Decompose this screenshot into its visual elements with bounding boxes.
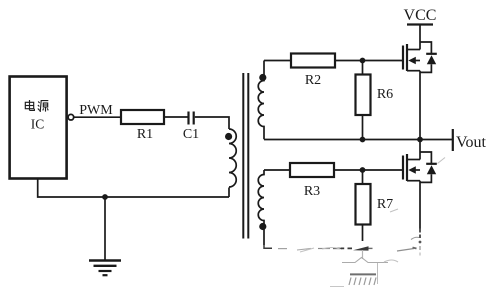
svg-text:R7: R7 (377, 197, 393, 212)
primary phase dot (225, 133, 232, 140)
resistor R1 (121, 110, 164, 124)
power IC U1 label 电 glyph (25, 100, 34, 110)
Q1 drain stub (407, 49, 420, 51)
resistor R7 (362, 170, 364, 184)
wire R1 to C1 (164, 116, 188, 118)
junction node R3/R7/gate (360, 167, 366, 173)
VCC rail bar (407, 23, 433, 25)
Q2 body diode branch (420, 152, 431, 163)
transformer core lines (242, 73, 244, 239)
svg-text:IC: IC (31, 117, 45, 132)
wire secondary bottom to R3 (264, 169, 290, 171)
wire C1 to transformer primary (195, 117, 229, 129)
Q1 channel bar (406, 44, 408, 71)
wire R2 to gate Q1 (335, 60, 403, 62)
junction dot ground rail (102, 194, 108, 200)
wire PWM pin to R1 (74, 116, 121, 118)
secondary top phase dot (259, 74, 266, 81)
wire output rail (Vout node) (264, 139, 452, 141)
svg-text:R3: R3 (304, 184, 320, 199)
svg-text:R2: R2 (305, 73, 321, 88)
Q2 drain stub (407, 159, 420, 161)
Q1 source stub (407, 70, 420, 72)
mosfet Q1 (403, 42, 437, 140)
mosfet Q2 (403, 140, 437, 229)
pin PWM open circle (68, 114, 74, 120)
power IC U1 label 源 glyph (38, 101, 49, 112)
Q2 drain line (419, 140, 421, 160)
wire secondary bottom lead to ground node (faded) (264, 245, 272, 248)
junction node R2/R6/gate (360, 58, 366, 64)
svg-text:R1: R1 (137, 127, 153, 142)
wire Q2 source to ground (faded) (419, 229, 421, 239)
power IC U1 (box) (10, 77, 67, 179)
wire R3 to gate Q2 (334, 169, 403, 171)
svg-text:Vout: Vout (456, 134, 486, 151)
svg-text:VCC: VCC (404, 7, 437, 24)
transformer T1 primary winding (229, 129, 236, 187)
resistor R6 (362, 61, 364, 75)
transformer T1 secondary bottom winding (258, 170, 264, 245)
watermark smudges (300, 158, 445, 263)
Q2 source stub (407, 180, 420, 182)
ground symbol (earth) (104, 197, 106, 260)
Q2 channel bar (406, 154, 408, 181)
wire secondary top to R2 (264, 60, 291, 62)
svg-text:PWM: PWM (79, 103, 113, 118)
Vout terminal bar (452, 129, 454, 151)
junction smudge R7 lead / ground wire (353, 246, 369, 250)
junction dot Q1 source / Q2 drain (417, 137, 423, 143)
svg-text:C1: C1 (183, 127, 199, 142)
svg-text:R6: R6 (377, 87, 393, 102)
resistor R2 (291, 54, 335, 68)
Q1 body arrow (413, 60, 420, 62)
ground (hatched, faded) bottom right (330, 250, 388, 287)
wire VCC to Q1 drain (419, 25, 421, 50)
capacitor C1 (187, 112, 189, 125)
Q2 body arrow (413, 169, 420, 171)
Q1 gate bar (402, 46, 404, 70)
Q1 body diode branch (420, 42, 431, 53)
resistor R3 (290, 163, 334, 177)
Q2 source line (419, 181, 421, 229)
wire IC bottom to primary bottom (ground rail) (38, 179, 229, 198)
Q2 gate bar (402, 156, 404, 180)
wire primary bottom lead (228, 188, 230, 198)
secondary bottom phase dot (259, 223, 266, 230)
Q1 source line (419, 71, 421, 140)
transformer T1 secondary top winding (258, 61, 264, 140)
junction dot R6 bottom (360, 137, 366, 143)
